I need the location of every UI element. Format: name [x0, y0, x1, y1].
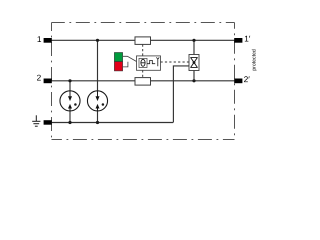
node bus/F2 [96, 121, 99, 124]
wire GDT F1 to line 2 and ground [69, 81, 71, 123]
label 1 [38, 36, 42, 42]
terminal block 1 (left) [44, 38, 52, 43]
dash-dot device outline frame [52, 23, 235, 140]
dotted monitor link R1 to thermal box [142, 45, 144, 56]
wire TVS to line 1 and line 2 [193, 40, 195, 81]
switch contact [147, 60, 155, 63]
node line1/F2 [96, 39, 99, 42]
node line2/TVS [192, 79, 195, 82]
gas discharge tube F2 [87, 91, 107, 111]
wire line 2 right segment [151, 80, 242, 82]
resistor R1 on line 1 [135, 37, 151, 45]
ground symbol [32, 115, 40, 126]
terminal block 2' (right) [234, 79, 242, 84]
node line2/F1 [68, 79, 71, 82]
wire GDT F2 to line 1 and ground [97, 40, 99, 122]
resistor R2 on line 2 [135, 78, 151, 86]
label protected (vertical) [252, 50, 257, 71]
wire ground bus [45, 122, 173, 124]
node line1/TVS [192, 39, 195, 42]
thermal disconnect box U1 [137, 56, 161, 70]
inner theta box [139, 58, 147, 67]
wire line 1 right segment [151, 39, 242, 41]
label 2' [244, 76, 250, 82]
dotted monitor link thermal box to TVS [161, 61, 190, 63]
terminal block ground (left) [44, 120, 52, 125]
gas discharge tube F1 [60, 91, 80, 111]
wire line 2 left segment [45, 80, 135, 82]
terminal block 2 (left) [44, 79, 52, 84]
suppressor diode TVS (box with bowtie) [189, 55, 199, 71]
status indicator (green/red flag) [114, 53, 122, 71]
wire TVS centre tap to ground bus [173, 66, 189, 123]
theta glyph [141, 59, 145, 66]
terminal block 1' (right) [234, 38, 242, 43]
node bus/F1 [68, 121, 71, 124]
dotted monitor link thermal box to R2 [142, 70, 144, 77]
label 1' [245, 36, 250, 42]
wire line 1 left segment [45, 39, 135, 41]
indicator link wires [123, 56, 137, 61]
label 2 [37, 75, 41, 81]
